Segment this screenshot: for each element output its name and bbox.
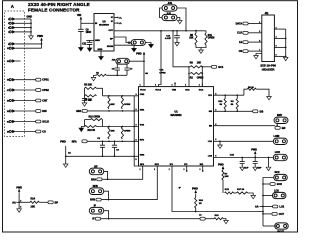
wire xyxy=(15,27,31,29)
svg-text:PWD: PWD xyxy=(60,141,66,144)
wire xyxy=(89,44,91,48)
wire xyxy=(81,22,94,24)
svg-text:SCLK: SCLK xyxy=(42,121,49,124)
wire xyxy=(16,201,19,203)
wire xyxy=(84,88,86,96)
ground xyxy=(132,48,137,51)
ground xyxy=(218,145,223,148)
svg-text:2K: 2K xyxy=(199,203,202,205)
wire xyxy=(97,88,103,96)
resistor R4 inline xyxy=(85,95,97,97)
ground xyxy=(82,103,87,106)
wire EN net xyxy=(214,125,276,127)
svg-text:A2: A2 xyxy=(68,152,72,155)
wire xyxy=(263,195,272,197)
svg-text:IFO: IFO xyxy=(208,95,212,97)
wire xyxy=(129,60,144,62)
wire ground return row xyxy=(65,146,67,164)
svg-text:1NF: 1NF xyxy=(257,168,262,170)
net flag EN xyxy=(275,126,280,129)
capacitor C14 xyxy=(176,30,178,32)
capacitor C7 xyxy=(126,64,128,68)
jack J11 oval xyxy=(275,223,289,229)
ground xyxy=(266,167,271,170)
wire xyxy=(41,41,43,49)
ground xyxy=(149,44,154,47)
svg-text:1: 1 xyxy=(155,85,156,87)
ground xyxy=(267,97,272,100)
wire xyxy=(256,54,262,56)
svg-text:1UF: 1UF xyxy=(244,168,249,170)
ground xyxy=(178,20,183,23)
ground xyxy=(240,167,245,170)
net flag CPS2 xyxy=(36,89,41,92)
wire xyxy=(15,22,31,24)
svg-text:L2: L2 xyxy=(199,215,202,217)
wire xyxy=(15,60,20,62)
svg-text:C15: C15 xyxy=(230,154,235,156)
U3 SHDN wire to ground xyxy=(114,45,134,48)
svg-text:RFA: RFA xyxy=(140,138,145,141)
svg-text:LO1: LO1 xyxy=(208,141,213,143)
wire xyxy=(15,18,31,20)
pin I.C. 6 xyxy=(114,22,118,24)
svg-text:C11: C11 xyxy=(82,44,87,46)
svg-text:GB: GB xyxy=(209,111,213,113)
svg-text:CS: CS xyxy=(42,131,46,134)
svg-text:DIN: DIN xyxy=(42,110,47,113)
wire xyxy=(222,180,224,193)
resistor R19 inline xyxy=(85,125,97,127)
wire branch to R6 xyxy=(172,30,174,32)
svg-text:R1: R1 xyxy=(96,72,100,74)
wire VCC rail xyxy=(114,30,206,32)
svg-text:10K: 10K xyxy=(111,130,115,132)
wire xyxy=(196,45,206,48)
svg-text:1: 1 xyxy=(140,85,141,87)
wire xyxy=(188,67,190,87)
wire xyxy=(18,192,20,209)
op-amp U3 regulator MAX8510 body xyxy=(94,14,114,52)
svg-text:DATA: DATA xyxy=(236,22,243,25)
svg-text:50: 50 xyxy=(231,104,234,106)
svg-text:FEMALE CONNECTOR: FEMALE CONNECTOR xyxy=(28,8,80,13)
ground xyxy=(283,57,288,60)
svg-text:AA: AA xyxy=(12,201,16,204)
header J2 body xyxy=(262,15,275,62)
pin stub top 3 xyxy=(174,83,176,86)
wire LO1 net xyxy=(214,140,274,142)
capacitor C2 xyxy=(102,140,104,142)
svg-text:A: A xyxy=(11,4,15,9)
svg-text:50K: 50K xyxy=(111,104,115,106)
svg-text:3: 3 xyxy=(20,207,21,209)
wire U1 pin GB1 xyxy=(88,110,139,112)
svg-text:2: 2 xyxy=(200,169,201,171)
svg-text:GND: GND xyxy=(95,40,100,42)
svg-text:R14: R14 xyxy=(31,198,36,201)
wire U1 pin VG1 xyxy=(97,126,140,128)
wire xyxy=(249,32,262,34)
svg-text:3: 3 xyxy=(259,31,260,33)
connector J1 dashed outline box xyxy=(5,11,25,137)
ground xyxy=(224,220,229,223)
svg-text:MAX8510: MAX8510 xyxy=(99,24,110,27)
svg-text:I.C.: I.C. xyxy=(119,23,123,25)
ground xyxy=(81,127,84,129)
wire U1 pin CM1 xyxy=(103,95,140,97)
wire xyxy=(104,191,109,199)
svg-text:OPEN: OPEN xyxy=(159,73,166,75)
wire LO2 net xyxy=(214,157,274,159)
svg-text:R15: R15 xyxy=(215,215,220,217)
net flag box xyxy=(82,140,87,143)
svg-text:RFA: RFA xyxy=(91,178,96,181)
svg-text:LO2: LO2 xyxy=(279,206,284,209)
op-amp U1 MAX2022 body xyxy=(139,87,214,166)
left bus xyxy=(134,96,138,166)
svg-text:CM1: CM1 xyxy=(140,94,145,96)
wire xyxy=(104,171,108,179)
svg-text:CS: CS xyxy=(239,50,243,53)
svg-text:MAX2022: MAX2022 xyxy=(170,114,182,117)
net flag OUT xyxy=(262,211,264,213)
svg-text:9: 9 xyxy=(136,139,137,141)
svg-text:1: 1 xyxy=(259,22,260,24)
wire xyxy=(177,18,180,21)
wire xyxy=(206,218,214,220)
svg-text:R2: R2 xyxy=(190,77,194,79)
svg-text:RFB: RFB xyxy=(90,199,95,202)
svg-text:LO2: LO2 xyxy=(208,156,213,158)
wire xyxy=(234,192,237,194)
wire xyxy=(143,55,145,87)
capacitor C11 xyxy=(89,40,91,42)
svg-text:RFA: RFA xyxy=(72,141,77,144)
svg-text:OPEN: OPEN xyxy=(124,130,131,132)
ground xyxy=(29,36,34,39)
wire IF1 down xyxy=(172,166,263,212)
svg-text:R6: R6 xyxy=(190,63,194,65)
wire xyxy=(15,110,35,112)
svg-text:IN: IN xyxy=(95,23,98,25)
resistor R13 xyxy=(122,95,124,97)
wire xyxy=(249,50,262,52)
net flag GC1 xyxy=(212,65,217,68)
ground xyxy=(79,48,84,51)
wire xyxy=(15,31,31,33)
resistor R10 xyxy=(224,94,226,96)
svg-text:9: 9 xyxy=(136,109,137,111)
svg-text:C7: C7 xyxy=(130,68,134,70)
svg-text:1: 1 xyxy=(199,85,200,87)
net flag DIN xyxy=(36,110,41,113)
svg-text:R22: R22 xyxy=(225,189,230,191)
svg-text:TSB: TSB xyxy=(172,89,177,91)
svg-text:7: 7 xyxy=(259,49,260,51)
wire xyxy=(80,20,82,30)
svg-text:6: 6 xyxy=(276,46,277,48)
wire xyxy=(15,121,35,123)
wire xyxy=(114,37,131,43)
wire IF out xyxy=(214,94,244,96)
pin stub BI2 xyxy=(202,166,204,171)
svg-text:GC2: GC2 xyxy=(199,89,204,91)
svg-text:U1: U1 xyxy=(174,110,178,114)
wire xyxy=(249,23,262,25)
svg-text:4: 4 xyxy=(276,36,277,39)
svg-text:GB: GB xyxy=(260,110,264,113)
svg-text:9: 9 xyxy=(136,94,137,96)
ground xyxy=(17,209,22,212)
wire xyxy=(263,178,274,227)
svg-text:SHDN: SHDN xyxy=(107,46,114,48)
svg-text:IF: IF xyxy=(92,218,95,221)
wire xyxy=(195,208,197,212)
svg-text:C3: C3 xyxy=(116,150,120,152)
wire xyxy=(88,140,140,142)
svg-text:2: 2 xyxy=(169,169,170,171)
svg-text:IC: IC xyxy=(111,21,114,23)
svg-text:10K: 10K xyxy=(31,206,36,209)
resistor R12 xyxy=(108,95,110,97)
ground xyxy=(87,48,92,51)
wire xyxy=(80,32,82,48)
wire xyxy=(263,225,277,227)
net flag BP xyxy=(48,201,53,204)
svg-text:LOO: LOO xyxy=(275,151,280,154)
wire xyxy=(202,66,211,68)
resistor R9 xyxy=(236,94,238,96)
wire xyxy=(93,75,95,77)
resistor R20 xyxy=(108,126,110,128)
svg-text:CNT: CNT xyxy=(42,100,48,103)
svg-text:0.1UF: 0.1UF xyxy=(165,38,172,40)
svg-text:IC: IC xyxy=(111,17,114,19)
svg-text:5: 5 xyxy=(259,40,260,42)
potentiometer R14 node xyxy=(18,201,20,203)
svg-text:LE: LE xyxy=(239,41,243,44)
svg-text:PWD: PWD xyxy=(37,35,43,38)
svg-text:1: 1 xyxy=(172,85,173,87)
svg-text:R19 50: R19 50 xyxy=(88,130,96,132)
svg-text:R17 50: R17 50 xyxy=(237,189,245,191)
capacitor C4 xyxy=(84,96,86,99)
svg-text:GC1: GC1 xyxy=(185,89,190,91)
resistor R21 xyxy=(122,126,124,128)
wire xyxy=(274,46,285,48)
svg-text:VIN: VIN xyxy=(77,14,81,17)
wire xyxy=(274,28,285,30)
wire xyxy=(15,43,41,45)
wire xyxy=(160,8,163,18)
node GND bus xyxy=(30,19,32,36)
svg-text:10K: 10K xyxy=(197,63,202,65)
svg-text:GND: GND xyxy=(27,15,33,18)
svg-text:CLK: CLK xyxy=(237,32,242,35)
wire gate bias xyxy=(224,109,226,111)
wire branch to U1 VCC2 pin xyxy=(160,30,162,32)
pin I.C. 7 xyxy=(114,16,118,18)
wire xyxy=(39,201,48,203)
svg-text:EN: EN xyxy=(282,127,286,130)
svg-text:R18 OPEN: R18 OPEN xyxy=(89,117,101,119)
wire xyxy=(15,131,35,133)
svg-text:PWD: PWD xyxy=(136,53,142,55)
svg-text:EN: EN xyxy=(209,126,212,128)
svg-text:8: 8 xyxy=(276,55,277,57)
svg-text:IF: IF xyxy=(179,188,182,190)
svg-text:50: 50 xyxy=(220,104,223,106)
wire xyxy=(15,47,41,49)
svg-text:GB1: GB1 xyxy=(140,110,145,112)
ground xyxy=(63,164,68,167)
wire xyxy=(101,120,103,127)
wire xyxy=(15,79,35,81)
wire U1 pin GN2 xyxy=(134,155,138,157)
svg-text:2: 2 xyxy=(140,169,141,171)
pin stub top 5 xyxy=(201,83,203,86)
wire xyxy=(274,55,285,57)
net flag CPS1 xyxy=(36,78,41,81)
wire xyxy=(268,157,270,159)
svg-text:R3 10K: R3 10K xyxy=(84,85,92,87)
svg-text:ENV: ENV xyxy=(277,114,282,117)
wire xyxy=(85,119,91,121)
svg-text:CPS1: CPS1 xyxy=(42,79,49,82)
svg-text:VCC2: VCC2 xyxy=(155,89,162,91)
wire RF2 to jack J4 xyxy=(102,166,158,200)
svg-text:1: 1 xyxy=(185,85,186,87)
svg-text:2: 2 xyxy=(154,169,155,171)
net flag CS xyxy=(36,130,41,133)
svg-text:VG1: VG1 xyxy=(140,124,145,126)
capacitor C13 xyxy=(254,157,256,159)
svg-text:BP: BP xyxy=(55,201,59,204)
wire xyxy=(223,219,226,221)
svg-text:10K: 10K xyxy=(225,176,229,178)
wire xyxy=(201,67,203,87)
svg-text:PWD: PWD xyxy=(251,148,257,151)
ground xyxy=(99,57,104,60)
svg-text:3: 3 xyxy=(135,159,137,161)
svg-text:2: 2 xyxy=(276,27,277,29)
wire RF1 to jack J3 xyxy=(102,166,142,179)
resistor R2 xyxy=(190,72,202,74)
ground xyxy=(254,56,259,59)
ground xyxy=(91,77,96,80)
ground xyxy=(253,167,258,170)
svg-text:10UF: 10UF xyxy=(86,32,92,34)
net flag GC2 xyxy=(262,183,264,185)
wire xyxy=(145,43,151,45)
wire ground rail xyxy=(94,74,97,76)
wire xyxy=(274,37,285,39)
wire xyxy=(15,89,35,91)
wire xyxy=(195,193,197,197)
wire xyxy=(86,39,94,41)
svg-text:PWD: PWD xyxy=(192,187,198,190)
resistor R16 xyxy=(195,198,197,209)
svg-text:GC1: GC1 xyxy=(218,66,224,69)
wire xyxy=(106,74,127,76)
svg-text:AA: AA xyxy=(255,206,259,209)
node with ground stub xyxy=(219,140,221,142)
pin 1 stub xyxy=(267,12,269,15)
wire xyxy=(15,100,35,102)
net flag CNT xyxy=(36,99,41,102)
svg-text:HEADER: HEADER xyxy=(262,67,276,71)
wire xyxy=(177,8,186,31)
svg-text:OPEN: OPEN xyxy=(124,104,131,106)
svg-text:OUT: OUT xyxy=(279,213,285,216)
svg-text:8: 8 xyxy=(215,139,216,141)
header ground bus xyxy=(285,29,287,57)
svg-text:2: 2 xyxy=(184,169,185,171)
svg-text:OUT: OUT xyxy=(108,30,113,32)
svg-text:OPEN: OPEN xyxy=(208,37,215,39)
svg-text:U3: U3 xyxy=(102,21,106,24)
wire xyxy=(104,211,109,219)
wire xyxy=(19,201,30,203)
svg-text:VCC1: VCC1 xyxy=(140,89,147,91)
svg-text:C13: C13 xyxy=(159,70,164,72)
svg-text:C14: C14 xyxy=(166,35,171,38)
svg-text:GB1: GB1 xyxy=(76,110,82,113)
svg-text:IFOUT: IFOUT xyxy=(277,231,284,233)
wire xyxy=(276,124,278,126)
capacitor C6 xyxy=(116,64,118,68)
svg-text:PWD: PWD xyxy=(218,163,224,166)
ground xyxy=(251,195,256,198)
ground xyxy=(199,50,204,53)
svg-text:10K: 10K xyxy=(189,37,194,39)
resistor R8 loop xyxy=(244,89,247,95)
net flag SCLK xyxy=(36,120,41,123)
svg-text:GC2: GC2 xyxy=(275,171,281,174)
capacitor C3 xyxy=(114,140,116,142)
wire IF output run xyxy=(101,218,200,220)
svg-text:CPS2: CPS2 xyxy=(42,89,49,92)
svg-text:9: 9 xyxy=(136,125,137,127)
svg-text:2X20 40-PIN RIGHT ANGLE: 2X20 40-PIN RIGHT ANGLE xyxy=(28,2,90,7)
svg-text:C2: C2 xyxy=(97,138,101,140)
resistor R5 xyxy=(195,30,197,32)
svg-text:I.C.: I.C. xyxy=(119,17,123,19)
svg-text:GN2: GN2 xyxy=(140,154,145,156)
svg-text:GND: GND xyxy=(98,49,103,51)
svg-text:4A: 4A xyxy=(145,72,148,75)
wire xyxy=(249,41,262,43)
ground xyxy=(175,43,180,46)
svg-text:PWD: PWD xyxy=(16,186,22,189)
svg-text:GC2: GC2 xyxy=(277,183,283,186)
svg-text:BP: BP xyxy=(110,38,114,40)
pin stub IF2 xyxy=(186,166,188,171)
net flag GB xyxy=(253,110,258,113)
resistor R11 xyxy=(205,31,207,33)
capacitor C9 xyxy=(78,29,84,31)
